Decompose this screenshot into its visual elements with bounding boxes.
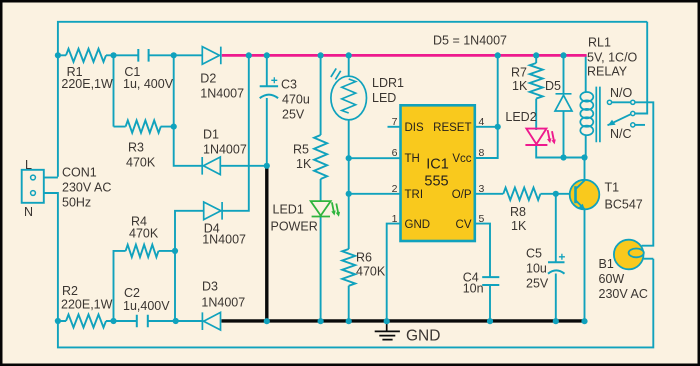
wire R1 row segments (58, 54, 202, 56)
resistor R1 (66, 49, 106, 62)
capacitor C4 (482, 277, 499, 285)
svg-text:25V: 25V (526, 277, 549, 291)
svg-text:D2: D2 (200, 72, 216, 86)
svg-text:50Hz: 50Hz (62, 196, 91, 210)
diode D3 (202, 312, 220, 330)
wire D5 vertical (563, 55, 565, 157)
wire x=173.7 vertical C1 junction to D1 corner (174, 55, 204, 166)
svg-text:R2: R2 (62, 284, 78, 298)
capacitor C3 plus sign (271, 77, 277, 83)
wire R7 LED2 chain bottom to relay bottom node (536, 55, 584, 157)
capacitor C3 (260, 86, 278, 98)
svg-text:7: 7 (392, 116, 398, 128)
wire T1 collector to relay node (584, 158, 586, 181)
wire CON1 N pin down to bottom return (44, 193, 654, 347)
svg-text:D5 = 1N4007: D5 = 1N4007 (433, 34, 507, 48)
svg-text:1u, 400V: 1u, 400V (123, 77, 174, 91)
wire T1 base lead (556, 193, 576, 195)
svg-text:N/O: N/O (610, 86, 633, 100)
svg-text:C3: C3 (281, 78, 297, 92)
ground bus black vertical (265, 166, 268, 321)
svg-text:1: 1 (392, 213, 398, 225)
wire TRI pin 2 to node (349, 193, 401, 195)
capacitor C5 plus sign (559, 254, 565, 260)
svg-text:R5: R5 (293, 143, 309, 157)
svg-text:D5: D5 (545, 79, 561, 93)
svg-text:10u: 10u (526, 262, 547, 276)
LED2 arrowheads (547, 138, 556, 144)
ground symbol (375, 322, 400, 340)
connector CON1 pin circles (31, 175, 36, 180)
resistor R3 (126, 120, 161, 132)
wire R4 row (114, 251, 176, 321)
wire relay pole feed from top rail (635, 22, 647, 114)
svg-text:TRI: TRI (405, 189, 424, 201)
svg-text:POWER: POWER (271, 220, 318, 234)
wire R3 row left lead (114, 126, 174, 128)
wire CV pin 5 to C4 and ground (475, 224, 490, 321)
svg-text:T1: T1 (605, 181, 620, 195)
resistor R2 (66, 315, 106, 328)
pink +V rail (222, 54, 587, 57)
wire GND pin 1 to ground bus (387, 224, 401, 321)
relay contact armature arrowhead (608, 120, 616, 126)
wire relay coil leads (585, 55, 587, 157)
svg-text:1N4007: 1N4007 (200, 87, 244, 101)
wire D4 anode row to R4 junction vertical (175, 211, 204, 321)
diode D5 (555, 94, 572, 111)
svg-text:470u: 470u (282, 93, 310, 107)
svg-text:25V: 25V (282, 108, 305, 122)
svg-text:TH: TH (405, 153, 420, 165)
wire top rail from L to relay pole (58, 22, 647, 177)
capacitor C5 (548, 262, 565, 274)
diode D4 (204, 202, 222, 220)
svg-text:6: 6 (392, 147, 398, 159)
svg-text:R6: R6 (356, 251, 372, 265)
svg-text:IC1: IC1 (426, 157, 449, 173)
svg-text:N: N (24, 205, 33, 219)
svg-text:DIS: DIS (405, 122, 425, 134)
wire DIS pin 7 stub (388, 126, 401, 128)
svg-text:LED: LED (372, 91, 396, 105)
svg-text:B1: B1 (599, 257, 614, 271)
resistor R7 (530, 63, 543, 99)
svg-text:470K: 470K (126, 156, 156, 170)
svg-text:230V AC: 230V AC (62, 181, 111, 195)
svg-text:4: 4 (479, 116, 485, 128)
transistor T1 emitter arrow (578, 204, 585, 210)
relay RL1 coil loops (580, 92, 593, 135)
wire R5 chain from pink rail to LED1 and ground (320, 55, 322, 321)
bulb B1 filament loop (629, 249, 644, 258)
svg-text:RL1: RL1 (588, 36, 611, 50)
LDR1 body (331, 76, 367, 120)
svg-text:2: 2 (392, 183, 398, 195)
wire R2 row (58, 320, 204, 322)
resistor R6 (342, 249, 355, 286)
wire x=248.8 vertical pink rail to D4 cathode (222, 55, 249, 210)
svg-text:RESET: RESET (433, 122, 471, 134)
wire C5 node from T1 base junction to ground (555, 194, 557, 321)
diode D2 (202, 47, 221, 65)
svg-text:1K: 1K (511, 219, 527, 233)
resistor R5 (314, 135, 327, 179)
svg-text:Vcc: Vcc (452, 153, 471, 165)
LDR1 inner zigzag (342, 79, 356, 113)
ground bus black horizontal (222, 319, 585, 322)
wire x=113.5 vertical R1 junction to R3 (113, 55, 115, 126)
LDR1 light slashes (331, 68, 341, 79)
svg-text:C5: C5 (526, 247, 542, 261)
svg-text:220E,1W: 220E,1W (61, 298, 113, 312)
svg-text:8: 8 (479, 147, 485, 159)
svg-text:470K: 470K (129, 227, 159, 241)
resistor R4 (126, 245, 159, 257)
LED1 arrowheads (331, 211, 340, 217)
bulb B1 body (614, 240, 644, 270)
svg-text:3: 3 (479, 183, 485, 195)
svg-text:10n: 10n (463, 282, 484, 296)
capacitor C1 (138, 49, 148, 62)
wire TH pin 6 to LDR node (349, 157, 401, 159)
svg-text:BC547: BC547 (605, 198, 643, 212)
svg-text:5V, 1C/O: 5V, 1C/O (587, 51, 638, 65)
wire N/O contact line to bulb top (612, 102, 654, 245)
svg-text:O/P: O/P (452, 189, 472, 201)
svg-text:C2: C2 (124, 286, 140, 300)
svg-text:GND: GND (406, 328, 440, 345)
svg-text:CON1: CON1 (62, 166, 97, 180)
svg-text:1u,400V: 1u,400V (123, 299, 170, 313)
op-amp: IC1 555 timer body (401, 105, 475, 241)
svg-text:R7: R7 (511, 66, 527, 80)
svg-text:1K: 1K (512, 79, 528, 93)
wire T1 emitter to ground bus (584, 210, 586, 322)
svg-text:D3: D3 (202, 280, 218, 294)
wire LDR chain and TH TRI node down through R6 to ground (348, 55, 350, 321)
svg-text:LED1: LED1 (273, 203, 304, 217)
transistor T1 emitter lead (576, 200, 585, 209)
wire N/C stub (635, 124, 645, 126)
diode D1 (202, 157, 220, 175)
LED2 symbol (525, 129, 554, 145)
capacitor C2 (137, 315, 148, 328)
relay contact armature (608, 114, 631, 125)
wire C3 top from pink rail (266, 55, 268, 165)
svg-text:220E,1W: 220E,1W (61, 77, 113, 91)
wire O/P pin 3 to R8 (475, 193, 556, 195)
svg-text:RELAY: RELAY (587, 65, 628, 79)
LED1 symbol (311, 201, 339, 216)
transistor T1 collector lead (576, 180, 585, 189)
relay RL1 core (596, 87, 600, 143)
wire bulb bottom terminal (644, 258, 654, 260)
svg-text:230V AC: 230V AC (599, 287, 648, 301)
svg-text:R3: R3 (128, 141, 144, 155)
svg-text:R8: R8 (510, 205, 526, 219)
svg-text:1N4007: 1N4007 (201, 296, 245, 310)
relay contact circles (607, 100, 635, 127)
svg-text:GND: GND (405, 219, 431, 231)
wire RESET pin 4 and Vcc pin 8 to +V rail (475, 55, 498, 158)
transistor T1 base bar (574, 186, 577, 203)
wire CON1 L pin (44, 177, 58, 179)
connector CON1 box (22, 170, 44, 203)
svg-text:1N4007: 1N4007 (202, 233, 246, 247)
resistor R8 (503, 188, 540, 200)
transistor T1 body (570, 180, 600, 210)
svg-text:60W: 60W (599, 272, 625, 286)
svg-text:L: L (25, 158, 32, 172)
svg-text:5: 5 (479, 213, 485, 225)
svg-text:LED2: LED2 (505, 110, 536, 124)
wire D1 anode to C3 node (220, 165, 266, 167)
svg-text:LDR1: LDR1 (372, 76, 404, 90)
svg-text:470K: 470K (356, 265, 386, 279)
svg-text:N/C: N/C (610, 127, 632, 141)
svg-text:CV: CV (456, 219, 472, 231)
svg-text:D1: D1 (203, 128, 219, 142)
svg-text:1K: 1K (296, 157, 312, 171)
svg-text:555: 555 (424, 174, 448, 190)
svg-text:1N4007: 1N4007 (203, 143, 247, 157)
